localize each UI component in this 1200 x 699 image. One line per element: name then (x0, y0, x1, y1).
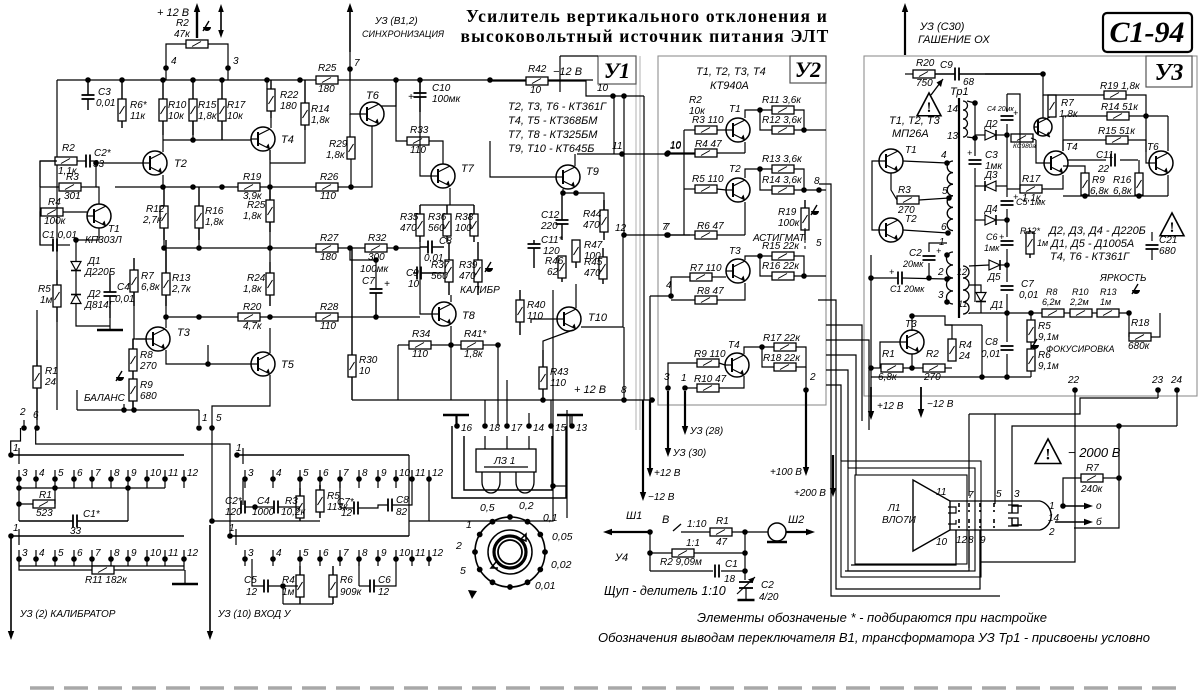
pin 17 delay line (504, 423, 522, 434)
pin 9 matrix4 (375, 548, 387, 566)
pin 3 matrix4 (242, 548, 254, 566)
CRT heater (948, 507, 956, 513)
svg-text:9: 9 (980, 535, 986, 546)
wire T8 base (420, 242, 432, 314)
wire m4 c5 right (268, 585, 298, 587)
svg-text:R36: R36 (428, 212, 447, 223)
svg-text:Усилитель вертикального отклон: Усилитель вертикального отклонения и (466, 6, 828, 26)
wire R4 left (668, 152, 695, 154)
pin 5 matrix4 (297, 548, 309, 566)
svg-text:Т5: Т5 (281, 359, 295, 371)
capacitor C11* 120 (528, 240, 541, 268)
wire R34 left (398, 344, 409, 346)
svg-text:Д1: Д1 (990, 300, 1004, 311)
svg-text:С1*: С1* (83, 509, 101, 520)
svg-text:− 2000 В: − 2000 В (1068, 445, 1121, 460)
svg-text:В: В (662, 514, 669, 526)
wire T4 collector (744, 347, 774, 354)
wire R3 right (717, 129, 726, 131)
wire dl v15 (550, 400, 552, 426)
junction rail248 x270 (267, 245, 273, 251)
transistor T2 (143, 151, 167, 175)
svg-text:R15 22к: R15 22к (762, 241, 800, 252)
junction R13 left (757, 166, 763, 172)
svg-text:10к: 10к (168, 111, 185, 122)
svg-text:2,7к: 2,7к (171, 284, 192, 295)
node pin2 (21, 425, 27, 431)
svg-text:ЯРКОСТЬ: ЯРКОСТЬ (1099, 273, 1147, 284)
capacitor C4 1000 (274, 501, 278, 514)
rotary switch hub (498, 540, 522, 564)
wire c21 stub (1151, 232, 1153, 241)
svg-text:С2*: С2* (94, 148, 112, 159)
svg-text:Ш1: Ш1 (626, 510, 642, 522)
node 24 u3 (1174, 387, 1180, 393)
capacitor C11 22 (1111, 154, 1115, 167)
svg-text:12: 12 (246, 587, 258, 598)
resistor R13 1m (1097, 309, 1119, 317)
rotary tick dot (525, 579, 531, 585)
pin 6 matrix2 (71, 548, 83, 566)
svg-text:+: + (408, 92, 414, 103)
svg-text:R2 9,09м: R2 9,09м (660, 557, 702, 568)
junction y317 x270 (267, 314, 273, 320)
svg-text:R40: R40 (527, 300, 546, 311)
wire R7 net up (1118, 426, 1120, 478)
wire rail y317 c (338, 316, 420, 318)
arrow U3(28) (682, 391, 688, 435)
svg-text:R3: R3 (285, 496, 298, 507)
svg-text:2,2м: 2,2м (1069, 297, 1089, 307)
wire R15-R16 right bracket (794, 256, 804, 276)
svg-text:13: 13 (947, 131, 959, 142)
capacitor C4 0.01 (104, 275, 117, 318)
wire center link down (429, 486, 553, 521)
wire R3 left (684, 129, 695, 131)
capacitor C2* 33 (86, 155, 90, 168)
rotary tick dot (537, 567, 543, 573)
pin 8 matrix3 (356, 468, 368, 488)
wire left col x57 top (56, 80, 58, 157)
ground dl left (443, 414, 469, 417)
svg-text:R19: R19 (243, 172, 262, 183)
wire C1 left v (18, 504, 20, 521)
page edge band (30, 686, 1185, 690)
CRT electrode (958, 503, 960, 512)
resistor R19 3.9k (238, 183, 260, 191)
wire T2 emitter down (744, 202, 746, 235)
wire osc r3 row (919, 198, 949, 200)
CRT inner box (855, 475, 967, 564)
svg-text:47к: 47к (174, 29, 191, 40)
resistor R27 180 (316, 244, 338, 252)
wire T5 collector (269, 328, 271, 353)
capacitor C6 1mk (1001, 241, 1014, 245)
node 12 pin (621, 232, 627, 238)
rotary tick dot (490, 519, 496, 525)
junction rail x222 (219, 77, 225, 83)
svg-text:R19 1,8к: R19 1,8к (1100, 81, 1141, 92)
svg-text:24: 24 (44, 377, 57, 388)
node 5 mid (209, 518, 215, 524)
svg-text:11: 11 (612, 141, 622, 152)
svg-text:4: 4 (276, 548, 282, 559)
svg-text:R1: R1 (716, 516, 729, 527)
wire R2 left lead down to node 4 (166, 44, 186, 68)
resistor R39 470 (474, 242, 482, 295)
svg-text:УЗ (2) КАЛИБРАТОР: УЗ (2) КАЛИБРАТОР (19, 609, 116, 620)
svg-text:6: 6 (323, 468, 329, 479)
transformer Tr1 primary winding (947, 161, 953, 231)
wire dl drop1 (484, 436, 486, 449)
rotary tick dot (507, 514, 513, 520)
wire row3 (650, 570, 713, 572)
pin 10 matrix3 (393, 468, 410, 488)
junction rail x228 (225, 65, 231, 71)
wire t6 emitter down (1167, 175, 1169, 196)
wire T3 collector (745, 256, 772, 260)
capacitor C1 0.01 (53, 239, 57, 252)
node 2 u2 (803, 387, 809, 393)
svg-text:Д814Г: Д814Г (84, 300, 116, 311)
junction m3 c4l (252, 504, 258, 510)
resistor R2 270 u3 (923, 364, 945, 372)
junction rail x267 (264, 77, 270, 83)
svg-text:7: 7 (95, 468, 101, 479)
wire T7 base (420, 80, 431, 176)
svg-text:523: 523 (36, 508, 53, 519)
arrow crt o (1063, 503, 1093, 509)
junction m1 p3 (16, 485, 22, 491)
wire R17 bottom to T4 base (222, 139, 251, 141)
wire FET col link (40, 160, 57, 162)
node 1 u2 (682, 385, 688, 391)
svg-text:4: 4 (941, 150, 947, 161)
junction rail x300 (297, 77, 303, 83)
svg-text:С4 20мк: С4 20мк (987, 106, 1014, 113)
potentiometer icon R9 (116, 371, 124, 381)
svg-text:Т1, Т2, Т3, Т4: Т1, Т2, Т3, Т4 (696, 66, 766, 78)
junction tap6 (945, 230, 951, 236)
svg-text:С4: С4 (257, 496, 270, 507)
svg-text:Т1: Т1 (108, 224, 120, 235)
wire CRT neck bottom (950, 529, 1040, 531)
svg-text:Т4, Т5 - КТ368БМ: Т4, Т5 - КТ368БМ (508, 115, 598, 127)
resistor R2 47k (186, 40, 208, 48)
junction fb2 (944, 276, 950, 282)
resistor R41* 1.8k (461, 341, 483, 349)
wire C1 right v (127, 488, 129, 521)
pin 9 matrix3 (375, 468, 387, 488)
resistor R4 1m (296, 566, 304, 604)
svg-text:470: 470 (583, 220, 600, 231)
svg-text:12: 12 (187, 468, 199, 479)
wire R17-R18 right bracket (796, 347, 806, 367)
junction T4e rail (267, 184, 273, 190)
rotary tick dot (477, 567, 483, 573)
svg-text:С10: С10 (432, 83, 451, 94)
svg-text:12: 12 (187, 548, 199, 559)
wire t3 collector (911, 316, 913, 331)
svg-text:100мк: 100мк (360, 264, 390, 275)
wire bundle v5 (826, 370, 848, 468)
wire T9 emitter bus (562, 193, 604, 210)
wire left bus x975 (974, 103, 976, 156)
capacitor C9 10 (413, 267, 444, 280)
svg-text:5: 5 (303, 468, 309, 479)
svg-text:Д1, Д5 - Д1005А: Д1, Д5 - Д1005А (1049, 238, 1134, 250)
svg-text:3: 3 (664, 372, 670, 383)
transistor T6 (360, 102, 384, 126)
pin 12 matrix1 (181, 468, 198, 488)
transistor T5 u3 (1034, 117, 1052, 137)
svg-text:R18: R18 (1131, 318, 1150, 329)
svg-text:6,8к: 6,8к (1113, 186, 1133, 197)
wire T10 collector (575, 284, 577, 308)
svg-text:24: 24 (1170, 375, 1183, 386)
svg-text:0,02: 0,02 (551, 559, 572, 571)
wire diode chain (75, 240, 77, 261)
svg-text:9: 9 (131, 548, 137, 559)
pin 8 matrix4 (356, 548, 368, 566)
wire bottom bus u3 (871, 376, 1031, 378)
svg-text:3: 3 (248, 468, 254, 479)
wire T4 emitter col (269, 150, 271, 200)
svg-text:9,1м: 9,1м (1038, 332, 1059, 343)
wire T7 emitter down (449, 188, 451, 205)
wire R6 left (668, 234, 695, 236)
svg-text:R1: R1 (39, 490, 52, 501)
tick bus1 left (18, 448, 20, 464)
svg-text:7: 7 (968, 490, 974, 501)
svg-text:С8: С8 (396, 495, 409, 506)
wire m3 c7-c8 (358, 505, 388, 508)
svg-text:С1 0,01: С1 0,01 (42, 230, 77, 241)
wire T6 base col down (349, 114, 351, 137)
resistor feed small (1011, 134, 1033, 142)
wire R8 col top (133, 339, 134, 349)
wire R13-R14 left bracket (760, 169, 772, 190)
svg-text:2: 2 (937, 267, 944, 278)
resistor R1 24 (33, 340, 41, 420)
pin 8 matrix1 (108, 468, 120, 488)
arrow up-down sync (218, 4, 224, 38)
junction d5 out (1004, 262, 1010, 268)
svg-text:R5: R5 (38, 284, 51, 295)
svg-text:R1: R1 (882, 349, 895, 360)
wire net A pin23 (969, 398, 1158, 414)
svg-text:909к: 909к (340, 587, 363, 598)
svg-text:R27: R27 (320, 233, 339, 244)
node pin5m (209, 425, 215, 431)
CRT electrode (993, 503, 995, 512)
svg-text:470: 470 (584, 268, 601, 279)
wire r5 top (1030, 313, 1032, 320)
wire osc base col (872, 161, 879, 230)
transistor T2 u3osc (879, 218, 903, 242)
wire osc t1 collector (903, 161, 947, 163)
svg-text:С6: С6 (378, 575, 391, 586)
capacitor C10 100mk (414, 80, 427, 112)
junction y187 x193 (190, 184, 196, 190)
rotary lower notch (491, 562, 498, 568)
resistor R17 22k (774, 343, 796, 351)
wire matrix2 bus y566 (19, 565, 184, 567)
svg-text:Т4: Т4 (1066, 142, 1078, 153)
wire T2 emitter down (162, 175, 164, 187)
wire d2 row b (996, 134, 1007, 136)
transformer Tr1 core (958, 98, 960, 318)
wire ground matrix stub (184, 570, 186, 584)
wire r2 right (945, 367, 952, 369)
wire c21 stub2 (1151, 249, 1153, 260)
resistor R14 3.6k (772, 186, 794, 194)
node bus2 end (8, 533, 14, 539)
pin 6 matrix3 (317, 468, 329, 488)
resistor R1 47 probe (710, 528, 732, 536)
svg-text:R3: R3 (898, 185, 911, 196)
svg-text:10,2к: 10,2к (281, 507, 306, 518)
svg-text:10: 10 (530, 85, 542, 96)
wire T1 top (96, 187, 99, 204)
node probe in (647, 529, 653, 535)
resistor R16 1.8k (195, 187, 203, 240)
pin 12 matrix2 (181, 548, 198, 566)
wire pin6 link (36, 428, 230, 536)
svg-text:560: 560 (428, 223, 445, 234)
svg-text:С12: С12 (541, 210, 560, 221)
junction x193 y140 (190, 137, 196, 143)
wire R7 right (1103, 477, 1119, 479)
junction y248 x350 (347, 245, 353, 251)
wire R17-R18 left bracket (762, 347, 774, 367)
wire +12 stub u3 (870, 377, 872, 387)
wire T5 base net (208, 345, 251, 364)
block U1 right border (636, 56, 640, 430)
wire m3 c7 left (340, 507, 354, 509)
wire m4 c5 down (282, 586, 284, 604)
wire after switch (681, 531, 710, 533)
resistor R13 2.7k (162, 240, 170, 306)
delay line LZ1 box (476, 449, 536, 472)
svg-text:12: 12 (956, 535, 968, 546)
transformer Tr1 HV winding (963, 101, 968, 137)
node rail R43 (540, 397, 546, 403)
wire electrode downs2 (968, 530, 970, 568)
rotary arrow (468, 590, 477, 599)
svg-text:ГАШЕНИЕ ОХ: ГАШЕНИЕ ОХ (918, 34, 990, 46)
svg-text:R9 110: R9 110 (694, 349, 726, 360)
svg-text:R4 47: R4 47 (695, 139, 722, 150)
svg-text:высоковольтный источник питани: высоковольтный источник питания ЭЛТ (460, 26, 829, 46)
potentiometer icon yarkost (1132, 284, 1140, 294)
svg-text:8: 8 (362, 468, 368, 479)
ground matrix (172, 583, 198, 586)
wire x614 down (613, 96, 615, 154)
wire R9 bot stub (1084, 195, 1086, 196)
resistor R4 100k (41, 208, 63, 216)
svg-text:R39: R39 (459, 260, 478, 271)
svg-text:22: 22 (1097, 164, 1110, 175)
svg-text:R30: R30 (359, 355, 378, 366)
wire emitter bus y196 (1063, 195, 1168, 197)
svg-text:R29: R29 (329, 139, 348, 150)
svg-text:R33: R33 (410, 125, 429, 136)
svg-text:680: 680 (140, 391, 157, 402)
CRT electrode (968, 503, 970, 512)
resistor R25b 1.8k (266, 190, 274, 232)
resistor R8 270 (129, 339, 137, 375)
wire m3 r3 top (299, 479, 301, 496)
wire C1 right (721, 570, 745, 572)
svg-text:5: 5 (816, 238, 822, 249)
svg-text:4/20: 4/20 (759, 592, 779, 603)
svg-text:17: 17 (511, 423, 523, 434)
pin 5 matrix2 (52, 548, 64, 566)
svg-text:240к: 240к (1080, 484, 1104, 495)
node row3 right (742, 568, 748, 574)
resistor R7lf 6.8k (130, 258, 138, 306)
transistor T7 (431, 164, 455, 188)
svg-text:+12 В: +12 В (654, 468, 681, 479)
svg-text:1,8к: 1,8к (1059, 109, 1079, 120)
svg-text:14: 14 (947, 104, 959, 115)
block U1 label box (598, 56, 636, 84)
wire m3 c2-c4 (245, 506, 274, 508)
wire c2 top (929, 243, 947, 252)
wire 4-line (650, 295, 671, 297)
resistor R34 110 (409, 341, 431, 349)
svg-text:180: 180 (280, 101, 297, 112)
resistor R30 10 (348, 248, 356, 400)
node pin1m (196, 425, 202, 431)
diode D4 u3 (985, 215, 996, 225)
wire gnd dl l (455, 415, 457, 426)
svg-text:БАЛАНС: БАЛАНС (84, 393, 126, 404)
rotary switch mid circle (488, 530, 532, 574)
wire dl v13 (571, 415, 573, 426)
wire x624 low (623, 327, 625, 400)
svg-text:Д3: Д3 (984, 170, 998, 181)
svg-text:R14 3,6к: R14 3,6к (762, 175, 803, 186)
trimmer capacitor C2 4/20 (737, 577, 755, 594)
resistor R10 47 (697, 384, 719, 392)
wire r15 left (1063, 139, 1106, 141)
wire rail y248 (166, 247, 316, 249)
svg-text:С3: С3 (98, 87, 111, 98)
svg-text:R38: R38 (455, 212, 474, 223)
CRT screen arc (1040, 501, 1051, 530)
svg-text:R10 47: R10 47 (694, 374, 727, 385)
svg-text:11: 11 (958, 299, 967, 309)
node rail8 b (649, 397, 655, 403)
resistor R15 51k (1106, 136, 1128, 144)
svg-text:С1-94: С1-94 (1110, 16, 1185, 49)
wire R29 bottom (350, 159, 352, 187)
svg-text:С6: С6 (986, 232, 998, 242)
svg-text:R17 22к: R17 22к (763, 333, 801, 344)
delay line LZ1 outline (452, 426, 566, 498)
wire right bus x1007 c (1006, 209, 1008, 237)
pin 5 matrix1 (52, 468, 64, 488)
capacitor C7 0.01 u3 (1001, 286, 1014, 290)
wire electrode link2 (845, 530, 969, 571)
resistor R33 110 (407, 137, 429, 145)
resistor R15 22k (772, 252, 794, 260)
svg-text:1,1к: 1,1к (1022, 193, 1042, 204)
capacitor C8 0.01 u3 (1001, 346, 1014, 350)
svg-text:R7 110: R7 110 (690, 263, 722, 274)
